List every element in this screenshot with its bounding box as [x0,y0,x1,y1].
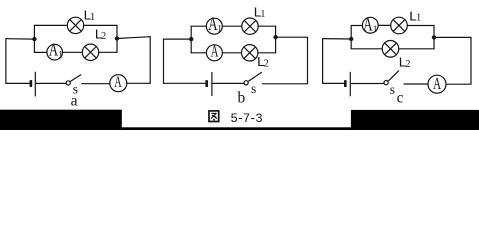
wire top branch right (circuit a) [84,24,117,26]
wire top-left horizontal (circuit b) [164,38,192,40]
label L2 (circuit a) [94,28,106,44]
svg-text:b: b [238,89,246,106]
wire branch merge vertical (circuit c) [433,26,435,49]
wire A1 to L1 (circuit c) [378,24,391,26]
battery (circuit c) [345,72,350,96]
wire battery to switch (circuit b) [213,82,244,84]
svg-text:c: c [397,90,404,107]
wire bottom left segment (circuit b) [164,82,206,84]
wire bottom branch right (circuit c) [399,48,434,50]
wire top branch left (circuit a) [34,24,67,26]
node left junction (circuit c) [349,37,353,41]
wire right vertical (circuit b) [307,37,309,83]
wire top-left horizontal (circuit a) [6,38,35,40]
ammeter A1 (circuit c) [362,13,378,35]
wire left vertical (circuit a) [5,39,7,84]
svg-text:A: A [211,42,219,61]
wire switch to ammeter (circuit a) [82,83,110,85]
svg-text:A: A [114,73,122,91]
ammeter A (circuit c) [428,75,446,94]
svg-text:2: 2 [264,58,269,69]
label L1 (circuit b) [253,6,265,22]
wire bottom branch to A (circuit b) [191,52,206,54]
lamp L1 (circuit c) [391,17,408,34]
wire bottom branch left (circuit a) [34,51,47,53]
ammeter A1 (circuit a) [47,41,63,61]
wire junction to top-right corner (circuit a) [117,37,150,39]
svg-text:1: 1 [260,9,265,20]
wire switch to ammeter (circuit c) [404,83,428,85]
wire branch merge vertical (circuit a) [116,25,118,52]
svg-text:2: 2 [405,59,410,70]
wire right vertical (circuit c) [470,38,472,84]
wire left vertical (circuit c) [322,39,324,84]
wire A1 to L1 (circuit b) [222,25,242,27]
svg-text:a: a [71,93,78,110]
svg-text:s: s [251,81,256,96]
svg-text:1: 1 [373,25,378,35]
label L2 (circuit c) [398,56,410,72]
svg-text:2: 2 [101,31,106,42]
wire A to lamp (circuit b) [222,52,241,54]
black bar bottom-right [351,110,479,130]
switch S (circuit c) [384,71,399,85]
wire left vertical (circuit b) [163,39,165,83]
node left junction (circuit a) [32,37,36,41]
black strip bottom-middle [122,127,351,130]
label L2 (circuit b) [257,55,269,71]
battery (circuit a) [31,72,35,96]
svg-text:s: s [390,82,395,97]
ammeter A (circuit b) [206,42,222,61]
wire bottom left segment (circuit a) [6,82,30,84]
wire bottom left segment (circuit c) [323,82,344,84]
battery (circuit b) [207,73,212,96]
label L1 (circuit a) [83,9,95,25]
wire battery to switch (circuit a) [36,82,66,84]
label L1 (circuit c) [409,9,422,25]
node right junction (circuit b) [273,35,277,39]
wire L1 to merge (circuit b) [258,25,275,27]
wire L1 to merge (circuit c) [407,25,434,27]
wire ammeter to corner (circuit c) [446,83,471,85]
wire junction to top-right corner (circuit b) [276,36,308,38]
wire bottom branch left (circuit c) [351,48,382,50]
svg-text:1: 1 [90,12,95,23]
black bar bottom-left [0,110,122,130]
ammeter A1 (circuit b) [206,13,222,35]
svg-text:1: 1 [217,24,222,34]
lamp L2 (circuit a) [82,44,98,60]
node left junction (circuit b) [189,37,193,41]
wire top-left horizontal (circuit c) [323,38,352,40]
switch S (circuit b) [244,72,262,85]
wire top branch to A1 (circuit c) [351,25,362,27]
wire top branch to A1 (circuit b) [191,25,206,27]
wire junction to top-right corner (circuit c) [434,36,471,38]
svg-text:A: A [363,13,373,35]
node right junction (circuit c) [432,35,436,39]
svg-text:1: 1 [416,13,421,24]
switch S (circuit a) [66,75,81,85]
wire battery to switch (circuit c) [351,83,384,85]
wire branch split vertical (circuit b) [190,26,192,53]
wire ammeter to corner (circuit a) [127,82,150,84]
lamp L2 (circuit b) [242,45,258,61]
svg-text:5-7-3: 5-7-3 [230,112,262,126]
wire switch to corner (circuit b) [263,83,308,85]
lamp L1 (circuit b) [242,18,258,34]
wire lamp to merge (circuit b) [258,52,276,54]
wire bottom branch right (circuit a) [99,51,117,53]
wire branch split vertical (circuit a) [33,25,35,52]
wire right vertical (circuit a) [149,37,151,84]
lamp L1 (circuit a) [67,17,83,33]
node right junction (circuit a) [115,36,119,40]
lamp L2 (circuit c) [382,41,399,58]
ammeter A (circuit a) [110,73,127,92]
svg-text:A: A [49,41,58,60]
wire between A1 and L2 (circuit a) [63,51,83,53]
caption character 图 (drawn) [209,111,219,122]
wire branch split vertical (circuit c) [350,26,352,49]
wire branch merge vertical (circuit b) [275,26,277,53]
svg-text:A: A [433,75,442,94]
